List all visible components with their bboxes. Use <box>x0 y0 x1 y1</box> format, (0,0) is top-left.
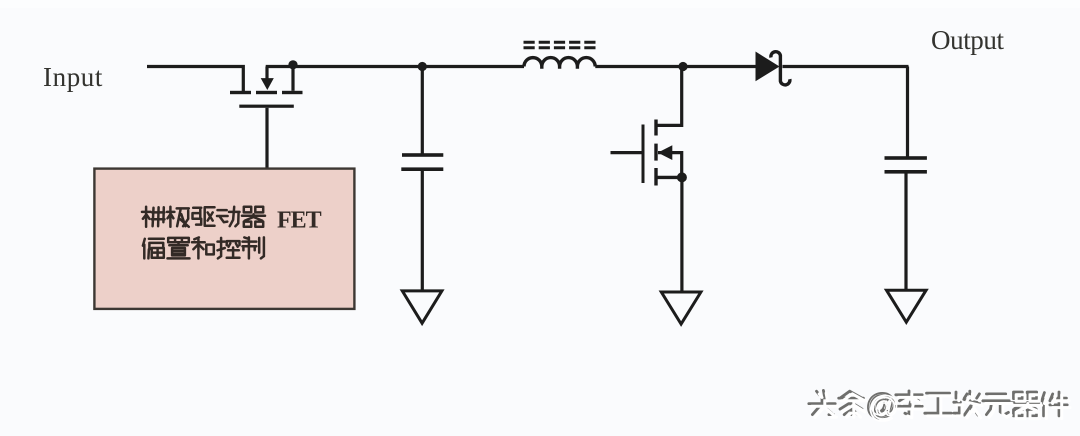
wire: input to Q1 source <box>147 67 243 92</box>
wire: Q1 gate stem to driver box <box>265 108 268 169</box>
node junction dot at Q2 source <box>677 172 687 182</box>
svg-text:Input: Input <box>43 62 103 92</box>
wire: Q2 gate lead <box>611 151 642 154</box>
transistor Q2 source pad <box>658 176 682 179</box>
wire: Q2 source to ground <box>680 177 683 292</box>
svg-text:FET: FET <box>277 208 322 234</box>
ground symbol (Q2) <box>661 292 701 324</box>
capacitor C2 plates <box>885 156 927 160</box>
watermark 头条@李工谈元器件 (embossed) <box>809 388 1070 424</box>
transistor Q2 channel bar segments <box>654 120 657 136</box>
transistor Q2 gate bar <box>642 125 645 184</box>
node junction dot at Q1 drain <box>288 60 297 69</box>
ground symbol (C2) <box>887 290 927 322</box>
diode D1 Schottky cathode bar with hooks <box>771 52 790 85</box>
transistor Q1 pass FET source pad <box>230 91 251 94</box>
wire: capacitor C1 top lead <box>421 67 424 155</box>
node junction dot at input capacitor <box>418 62 427 71</box>
inductor L1 coil <box>524 58 595 69</box>
capacitor C1 plates <box>402 153 443 157</box>
transistor Q1 pass FET drain pad <box>282 91 303 94</box>
wire: capacitor C2 bottom lead <box>904 174 907 292</box>
wire: diode to output corner <box>783 65 909 68</box>
inductor L1 core (dashed bars) <box>524 42 597 48</box>
wire: Q2 drain drop <box>658 67 682 126</box>
wire: main top rail Q1 to inductor <box>266 65 524 68</box>
wire: Q1 drain riser <box>291 67 294 91</box>
box label text line 1: 栅极驱动器 FET <box>142 207 265 227</box>
svg-text:Output: Output <box>931 25 1005 55</box>
ground symbol (C1) <box>402 291 442 323</box>
box label text line 2: 偏置和控制 <box>143 237 264 258</box>
wire: inductor to diode <box>595 65 755 68</box>
transistor Q1 body-diode arrow (down) <box>265 67 268 80</box>
gate driver box <box>94 169 354 309</box>
transistor Q1 pass FET body pad <box>256 91 277 94</box>
transistor Q2 body arrow (points left into channel) <box>658 153 682 176</box>
wire: capacitor C1 bottom lead <box>421 171 424 291</box>
transistor Q1 gate bar <box>239 105 293 108</box>
wire: output corner down to C2 <box>906 67 909 157</box>
diode D1 (Schottky) anode triangle <box>756 52 780 82</box>
node junction dot at Q2 drain <box>678 62 687 71</box>
svg-text:@: @ <box>869 391 898 424</box>
